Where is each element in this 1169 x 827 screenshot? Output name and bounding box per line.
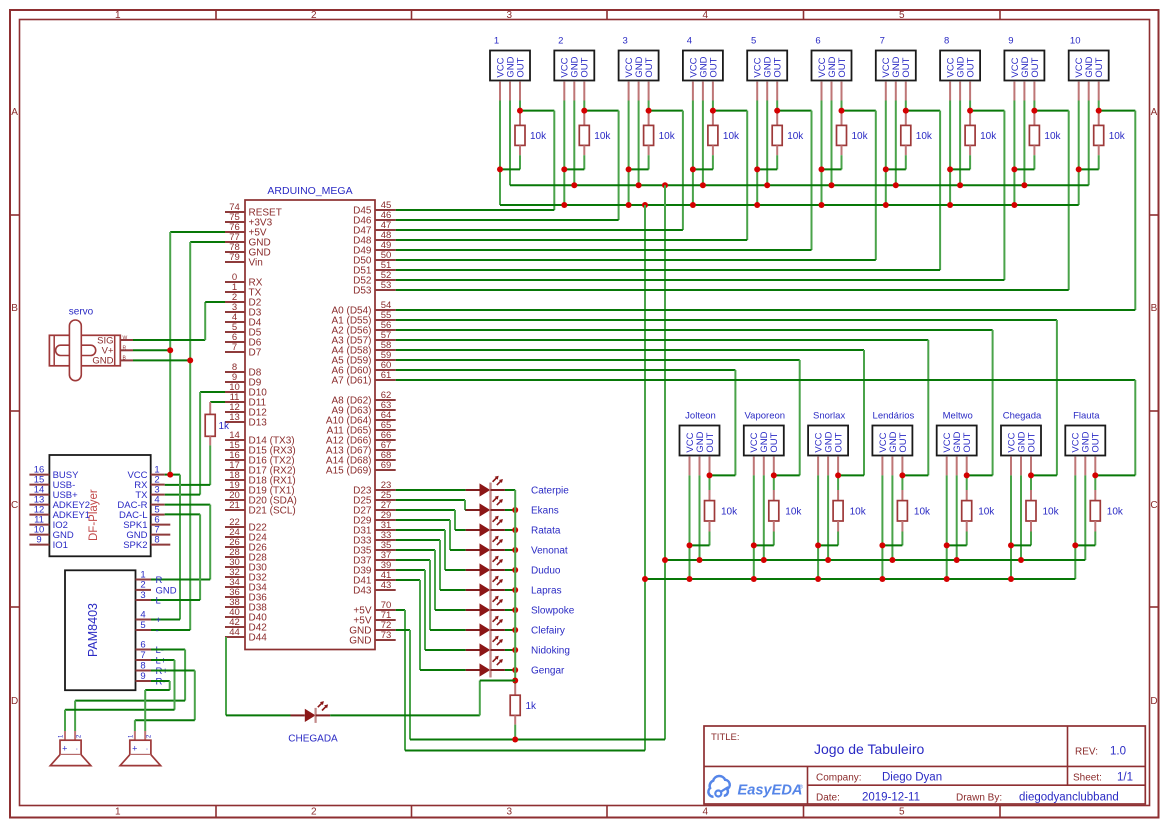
- connector J6 "6" (VCC GND OUT): [812, 36, 852, 101]
- wire conn4 VCC down: [692, 101, 694, 206]
- svg-text:3: 3: [140, 590, 145, 601]
- svg-text:Vaporeon: Vaporeon: [745, 411, 786, 422]
- resistor R7 10k pull-up: [886, 111, 933, 170]
- svg-text:2: 2: [311, 807, 317, 818]
- connector Meltwo (VCC GND OUT): [937, 411, 977, 476]
- wire D54 row y=310 to riser: [396, 309, 1136, 311]
- svg-text:10k: 10k: [1044, 131, 1061, 142]
- wire mid VCC bus: [645, 578, 1075, 580]
- svg-text:73: 73: [381, 630, 392, 641]
- svg-text:Caterpie: Caterpie: [531, 486, 569, 497]
- junction Flauta VCC-resistor node: [1072, 542, 1078, 548]
- LED D3 Ratata: [466, 516, 561, 538]
- junction conn1 VCC-resistor node: [497, 166, 503, 172]
- wire Jolteon GND down: [699, 475, 701, 560]
- wire conn6 OUT to column 876 then row 260: [842, 101, 876, 261]
- wire LED cathode bus: [514, 490, 516, 684]
- junction DF VCC: [167, 472, 173, 478]
- wire servo SIG to D2: [133, 302, 225, 340]
- junction LED Duduo cathode: [512, 567, 518, 573]
- svg-text:10k: 10k: [914, 507, 931, 518]
- svg-text:ARDUINO_MEGA: ARDUINO_MEGA: [267, 185, 352, 197]
- wire D53 row y=290 to riser: [396, 289, 1069, 291]
- connector J7 "7" (VCC GND OUT): [876, 36, 916, 101]
- junction Snorlax VCC-resistor node: [815, 542, 821, 548]
- wire D49 row y=250 to riser: [396, 249, 812, 251]
- wire +5V from pin 76 to servo/DF-Player: [170, 232, 225, 475]
- junction conn8 VCC-resistor node: [947, 166, 953, 172]
- LED D11 CHEGADA: [288, 701, 338, 745]
- svg-text:A15 (D69): A15 (D69): [326, 466, 372, 477]
- wire A-row y=350 to Snorlax riser: [396, 350, 864, 475]
- svg-text:IO1: IO1: [53, 540, 68, 551]
- svg-text:Diego Dyan: Diego Dyan: [882, 772, 942, 784]
- svg-text:+: +: [132, 744, 137, 754]
- LED D4 Venonat: [466, 536, 568, 558]
- svg-text:OUT: OUT: [1094, 57, 1105, 77]
- svg-text:.: .: [76, 743, 78, 752]
- svg-text:69: 69: [381, 460, 392, 471]
- svg-text:diegodyanclubband: diegodyanclubband: [1019, 791, 1119, 803]
- svg-text:A: A: [1151, 107, 1158, 118]
- wire Chegada GND down: [1020, 475, 1022, 560]
- svg-text:2: 2: [311, 10, 317, 21]
- svg-text:OUT: OUT: [966, 57, 977, 77]
- wire Jolteon OUT to riser: [710, 474, 736, 476]
- junction conn8 OUT node: [967, 108, 973, 114]
- junction servo V+ node: [167, 347, 173, 353]
- junction conn4 VCC-resistor node: [690, 166, 696, 172]
- svg-text:Ekans: Ekans: [531, 506, 559, 517]
- svg-text:10k: 10k: [1107, 507, 1124, 518]
- svg-text:1k: 1k: [219, 421, 231, 432]
- wire Vaporeon VCC down: [753, 475, 755, 579]
- wire PAM L- to speaker1 pin2: [75, 650, 185, 732]
- junction Flauta OUT node: [1092, 472, 1098, 478]
- svg-text:CHEGADA: CHEGADA: [288, 734, 338, 745]
- connector J1 "1" (VCC GND OUT): [490, 36, 530, 101]
- svg-text:53: 53: [381, 280, 392, 291]
- wire D50 row y=260 to riser: [396, 259, 876, 261]
- wire D48 row y=240 to riser: [396, 239, 748, 241]
- junction Chegada OUT node: [1028, 472, 1034, 478]
- junction Jolteon OUT node: [707, 472, 713, 478]
- svg-text:TITLE:: TITLE:: [711, 732, 740, 743]
- wire conn4 OUT to column 747 then row 240: [713, 101, 747, 241]
- connector Flauta (VCC GND OUT): [1065, 411, 1105, 476]
- svg-text:8: 8: [944, 36, 949, 47]
- svg-text:1: 1: [115, 807, 121, 818]
- svg-text:9: 9: [1008, 36, 1013, 47]
- wire PAM L+ to speaker1 pin1: [65, 660, 175, 731]
- wire conn2 OUT to column 619 then row 220: [584, 101, 618, 221]
- svg-text:10k: 10k: [1109, 131, 1126, 142]
- svg-text:L: L: [156, 596, 161, 607]
- svg-text:1/1: 1/1: [1117, 772, 1133, 784]
- wire PAM R- to speaker2 pin2: [145, 681, 170, 731]
- resistor R13 10k pull-up: [818, 475, 867, 545]
- junction LED Gengar cathode: [512, 667, 518, 673]
- junction Meltwo OUT node: [964, 472, 970, 478]
- wire D39 to LED 9: [396, 570, 466, 650]
- wire Chegada VCC down: [1010, 475, 1012, 579]
- svg-text:D44: D44: [249, 633, 268, 644]
- svg-text:8: 8: [154, 534, 159, 545]
- wire A-row y=380 to Flauta riser: [396, 380, 1136, 475]
- wire Lendários VCC down: [881, 475, 883, 579]
- svg-text:1k: 1k: [526, 701, 538, 712]
- svg-text:9: 9: [36, 534, 41, 545]
- svg-text:OUT: OUT: [644, 57, 655, 77]
- wire PAM +5V in: [151, 619, 180, 621]
- wire conn6 VCC down: [821, 101, 823, 206]
- svg-text:3: 3: [507, 10, 513, 21]
- wire conn10 OUT to column 1135 then row 310: [1099, 101, 1136, 311]
- wire D33 to LED 6: [396, 540, 466, 590]
- IC U2 DF-Player body: [49, 455, 150, 556]
- wire top GND bus: [510, 184, 1089, 186]
- svg-text:Jolteon: Jolteon: [685, 411, 716, 422]
- svg-text:10k: 10k: [659, 131, 676, 142]
- connector J9 "9" (VCC GND OUT): [1004, 36, 1044, 101]
- junction Lendários VCC-resistor node: [879, 542, 885, 548]
- junction servo GND node: [187, 357, 193, 363]
- wire A-row y=340 to Lendários riser: [396, 340, 929, 475]
- wire GND pin72 drop: [396, 630, 410, 740]
- wire D25 to LED 2: [396, 500, 466, 510]
- LED D9 Nidoking: [466, 636, 570, 658]
- resistor R16 10k pull-up: [1011, 475, 1060, 545]
- resistor R4 10k pull-up: [693, 111, 740, 170]
- wire Flauta VCC down: [1074, 475, 1076, 579]
- svg-text:Lendários: Lendários: [873, 411, 915, 422]
- svg-text:+: +: [62, 744, 67, 754]
- junctions mid GND bus: [662, 557, 1024, 563]
- wire bottom GND bus: [410, 739, 665, 741]
- wire D45 row y=210 to riser: [396, 209, 555, 211]
- junction conn3 VCC-resistor node: [626, 166, 632, 172]
- junction conn6 OUT node: [839, 108, 845, 114]
- connector Lendários (VCC GND OUT): [872, 411, 914, 476]
- svg-text:10k: 10k: [785, 507, 802, 518]
- wire Flauta OUT to riser: [1095, 474, 1135, 476]
- connector Jolteon (VCC GND OUT): [680, 411, 720, 476]
- wire Meltwo OUT to riser: [967, 474, 993, 476]
- speaker LS1: [50, 731, 91, 766]
- svg-text:D13: D13: [249, 418, 268, 429]
- svg-text:3: 3: [507, 807, 513, 818]
- junction conn5 VCC-resistor node: [754, 166, 760, 172]
- svg-text:B: B: [11, 303, 18, 314]
- svg-text:Meltwo: Meltwo: [943, 411, 973, 422]
- connector Snorlax (VCC GND OUT): [808, 411, 848, 476]
- svg-text:A7 (D61): A7 (D61): [331, 376, 371, 387]
- junction conn6 VCC-resistor node: [819, 166, 825, 172]
- wire conn8 OUT to column 1004 then row 280: [970, 101, 1004, 281]
- svg-text:Drawn By:: Drawn By:: [956, 792, 1002, 803]
- wire conn5 GND down: [766, 101, 768, 186]
- wire conn8 VCC down: [949, 101, 951, 206]
- frame row labels: [11, 107, 1158, 707]
- svg-text:D21 (SCL): D21 (SCL): [249, 506, 296, 517]
- svg-text:44: 44: [229, 627, 240, 638]
- junction LED Slowpoke cathode: [512, 607, 518, 613]
- svg-text:10k: 10k: [1043, 507, 1060, 518]
- wire servo GND: [133, 359, 190, 361]
- svg-text:Ratata: Ratata: [531, 526, 561, 537]
- svg-text:OUT: OUT: [708, 57, 719, 77]
- wire conn9 GND down: [1023, 101, 1025, 186]
- wire A-row y=330 to Meltwo riser: [396, 330, 993, 475]
- wire D37 to LED 8: [396, 560, 466, 630]
- svg-text:Venonat: Venonat: [531, 546, 568, 557]
- svg-text:Vin: Vin: [249, 258, 263, 269]
- resistor R11 10k pull-up: [690, 475, 739, 545]
- wire D44 to CHEGADA LED: [226, 637, 291, 715]
- U2 left pins: [29, 464, 90, 551]
- wire conn2 GND down: [573, 101, 575, 186]
- wire A-row y=320 to Chegada riser: [396, 320, 1057, 475]
- LED D10 Gengar: [466, 656, 565, 678]
- svg-text:4: 4: [140, 609, 145, 620]
- junction conn10 OUT node: [1096, 108, 1102, 114]
- junction cathode bus / CHEGADA: [512, 678, 518, 684]
- svg-text:R-: R-: [156, 677, 166, 688]
- wire 1k to DF-Player RX: [165, 445, 211, 485]
- svg-text:Duduo: Duduo: [531, 566, 561, 577]
- wire CHEGADA cathode to bus: [330, 681, 515, 716]
- wire Vaporeon GND down: [763, 475, 765, 560]
- resistor R18 1k (DF-Player RX): [205, 402, 230, 445]
- wire top VCC bus: [500, 204, 1079, 206]
- wire A-row y=370 to Jolteon riser: [396, 370, 736, 475]
- svg-text:OUT: OUT: [769, 432, 780, 452]
- svg-text:10k: 10k: [980, 131, 997, 142]
- wire Vaporeon OUT to riser: [774, 474, 800, 476]
- svg-text:6: 6: [140, 639, 145, 650]
- junction LED Ekans cathode: [512, 507, 518, 513]
- LED D6 Lapras: [466, 576, 562, 598]
- svg-text:OUT: OUT: [580, 57, 591, 77]
- wire Lendários OUT to riser: [902, 474, 928, 476]
- LED cathode bar column: [489, 483, 491, 677]
- resistor R14 10k pull-up: [882, 475, 931, 545]
- svg-text:7: 7: [232, 342, 237, 353]
- wire GND trunk x=665: [664, 185, 666, 739]
- wire D27 to LED 3: [396, 510, 466, 530]
- svg-text:SPK2: SPK2: [123, 540, 147, 551]
- connector J10 "10" (VCC GND OUT): [1069, 36, 1109, 101]
- junction LED Clefairy cathode: [512, 627, 518, 633]
- wire conn3 VCC down: [628, 101, 630, 206]
- wire PAM R+ to speaker2 pin1: [135, 671, 195, 732]
- svg-text:1.0: 1.0: [1110, 746, 1126, 758]
- wire DAC-L to PAM L: [151, 514, 200, 600]
- U1 left pins: [225, 202, 297, 644]
- svg-text:OUT: OUT: [1030, 57, 1041, 77]
- U3 right pins: [136, 569, 177, 687]
- svg-text:PAM8403: PAM8403: [86, 603, 100, 657]
- junction conn7 VCC-resistor node: [883, 166, 889, 172]
- svg-text:GND: GND: [349, 636, 371, 647]
- LED D8 Clefairy: [466, 616, 565, 638]
- wire conn8 GND down: [959, 101, 961, 186]
- wire conn1 VCC down: [499, 101, 501, 206]
- wire conn7 OUT to column 940 then row 270: [906, 101, 940, 271]
- junction LED Lapras cathode: [512, 587, 518, 593]
- connector servo: [49, 307, 133, 381]
- svg-text:5: 5: [140, 620, 145, 631]
- junctions top VCC bus: [561, 202, 1017, 208]
- svg-text:OUT: OUT: [773, 57, 784, 77]
- wire conn3 OUT to column 683 then row 230: [649, 101, 683, 231]
- junction conn3 OUT node: [646, 108, 652, 114]
- wire A-row y=360 to Vaporeon riser: [396, 360, 800, 475]
- wire servo V+: [133, 349, 170, 351]
- wire +5V pin70 drop: [396, 610, 405, 751]
- svg-text:OUT: OUT: [1091, 432, 1102, 452]
- svg-text:D: D: [11, 696, 18, 707]
- svg-text:3: 3: [622, 36, 627, 47]
- wire conn10 VCC down: [1078, 101, 1080, 206]
- svg-text:10k: 10k: [594, 131, 611, 142]
- connector J8 "8" (VCC GND OUT): [940, 36, 980, 101]
- resistor R15 10k pull-up: [947, 475, 996, 545]
- LED D7 Slowpoke: [466, 596, 575, 618]
- junction conn5 OUT node: [774, 108, 780, 114]
- svg-text:+: +: [156, 615, 162, 626]
- svg-text:Clefairy: Clefairy: [531, 626, 565, 637]
- junctions top GND bus: [571, 182, 1027, 188]
- svg-text:C: C: [11, 500, 18, 511]
- svg-text:1: 1: [494, 36, 499, 47]
- svg-text:-: -: [156, 626, 159, 637]
- junction 1k to GND bus: [512, 737, 518, 743]
- svg-text:R: R: [156, 575, 163, 586]
- wire Snorlax OUT to riser: [838, 474, 864, 476]
- svg-text:L-: L-: [156, 645, 164, 656]
- svg-text:Nidoking: Nidoking: [531, 646, 570, 657]
- resistor R2 10k pull-up: [564, 111, 611, 170]
- connector J2 "2" (VCC GND OUT): [554, 36, 594, 101]
- junctions mid VCC bus: [642, 576, 1014, 582]
- wire PAM GND in: [151, 629, 190, 631]
- svg-text:61: 61: [381, 370, 392, 381]
- svg-text:4: 4: [703, 807, 709, 818]
- connector J5 "5" (VCC GND OUT): [747, 36, 787, 101]
- svg-text:®: ®: [799, 784, 803, 791]
- svg-text:Slowpoke: Slowpoke: [531, 606, 575, 617]
- wire GND from pin 77 down: [190, 242, 225, 630]
- svg-text:Snorlax: Snorlax: [813, 411, 845, 422]
- svg-text:B: B: [1151, 303, 1158, 314]
- wire conn7 GND down: [895, 101, 897, 186]
- svg-text:10k: 10k: [787, 131, 804, 142]
- svg-text:13: 13: [229, 412, 240, 423]
- svg-text:A: A: [11, 107, 18, 118]
- IC U3 PAM8403 body: [65, 570, 136, 690]
- svg-text:9: 9: [140, 671, 145, 682]
- resistor R6 10k pull-up: [822, 111, 869, 170]
- svg-text:EasyEDA: EasyEDA: [738, 783, 803, 799]
- svg-text:D7: D7: [249, 348, 262, 359]
- wire bottom +5V bus: [405, 750, 645, 752]
- wire conn1 GND down: [509, 101, 511, 186]
- connector J3 "3" (VCC GND OUT): [619, 36, 659, 101]
- wire conn7 VCC down: [885, 101, 887, 206]
- svg-text:5: 5: [899, 10, 905, 21]
- svg-text:79: 79: [229, 252, 240, 263]
- svg-text:10k: 10k: [850, 507, 867, 518]
- svg-text:10k: 10k: [978, 507, 995, 518]
- svg-text:OUT: OUT: [515, 57, 526, 77]
- wire D11 to resistor R11k: [210, 401, 225, 403]
- svg-text:Flauta: Flauta: [1073, 411, 1100, 422]
- junction conn10 VCC-resistor node: [1076, 166, 1082, 172]
- wire conn2 VCC down: [563, 101, 565, 206]
- svg-text:7: 7: [880, 36, 885, 47]
- wire conn3 GND down: [638, 101, 640, 186]
- wire Jolteon VCC down: [689, 475, 691, 579]
- wire conn4 GND down: [702, 101, 704, 186]
- junction LED Venonat cathode: [512, 547, 518, 553]
- svg-text:REV:: REV:: [1075, 747, 1098, 758]
- svg-text:2019-12-11: 2019-12-11: [862, 791, 920, 803]
- LED D5 Duduo: [466, 556, 561, 578]
- wire DAC-R to PAM R: [151, 505, 210, 580]
- svg-text:7: 7: [140, 650, 145, 661]
- svg-text:10k: 10k: [530, 131, 547, 142]
- junction Lendários OUT node: [899, 472, 905, 478]
- wire D31 to LED 5: [396, 530, 466, 570]
- svg-text:5: 5: [751, 36, 756, 47]
- svg-text:2: 2: [558, 36, 563, 47]
- junction LED Nidoking cathode: [512, 647, 518, 653]
- resistor R10 10k pull-up: [1079, 111, 1126, 170]
- svg-text:10k: 10k: [721, 507, 738, 518]
- junction conn9 VCC-resistor node: [1011, 166, 1017, 172]
- svg-text:1: 1: [140, 569, 145, 580]
- svg-text:10: 10: [1070, 36, 1081, 47]
- resistor R5 10k pull-up: [757, 111, 804, 170]
- junction LED Ratata cathode: [512, 527, 518, 533]
- svg-text:D43: D43: [353, 586, 372, 597]
- resistor R1 10k pull-up: [500, 111, 547, 170]
- wire conn10 GND down: [1088, 101, 1090, 186]
- svg-text:6: 6: [815, 36, 820, 47]
- svg-text:OUT: OUT: [901, 57, 912, 77]
- svg-text:Jogo de Tabuleiro: Jogo de Tabuleiro: [814, 741, 924, 757]
- svg-text:OUT: OUT: [898, 432, 909, 452]
- junction Vaporeon VCC-resistor node: [751, 542, 757, 548]
- svg-text:OUT: OUT: [834, 432, 845, 452]
- svg-text:4: 4: [703, 10, 709, 21]
- wire D46 row y=220 to riser: [396, 219, 619, 221]
- wire D41 to LED 10: [396, 580, 466, 670]
- junction conn4 OUT node: [710, 108, 716, 114]
- svg-text:21: 21: [229, 500, 240, 511]
- svg-text:4: 4: [687, 36, 692, 47]
- svg-text:GND: GND: [92, 356, 113, 367]
- wire conn6 GND down: [831, 101, 833, 186]
- connector Chegada (VCC GND OUT): [1001, 411, 1042, 476]
- svg-text:10k: 10k: [852, 131, 869, 142]
- title block: [704, 726, 1145, 804]
- wire conn5 OUT to column 812 then row 250: [777, 101, 811, 251]
- U2 right pins: [117, 464, 170, 551]
- wire VCC trunk x=645: [644, 205, 646, 751]
- svg-text:Company:: Company:: [816, 773, 862, 784]
